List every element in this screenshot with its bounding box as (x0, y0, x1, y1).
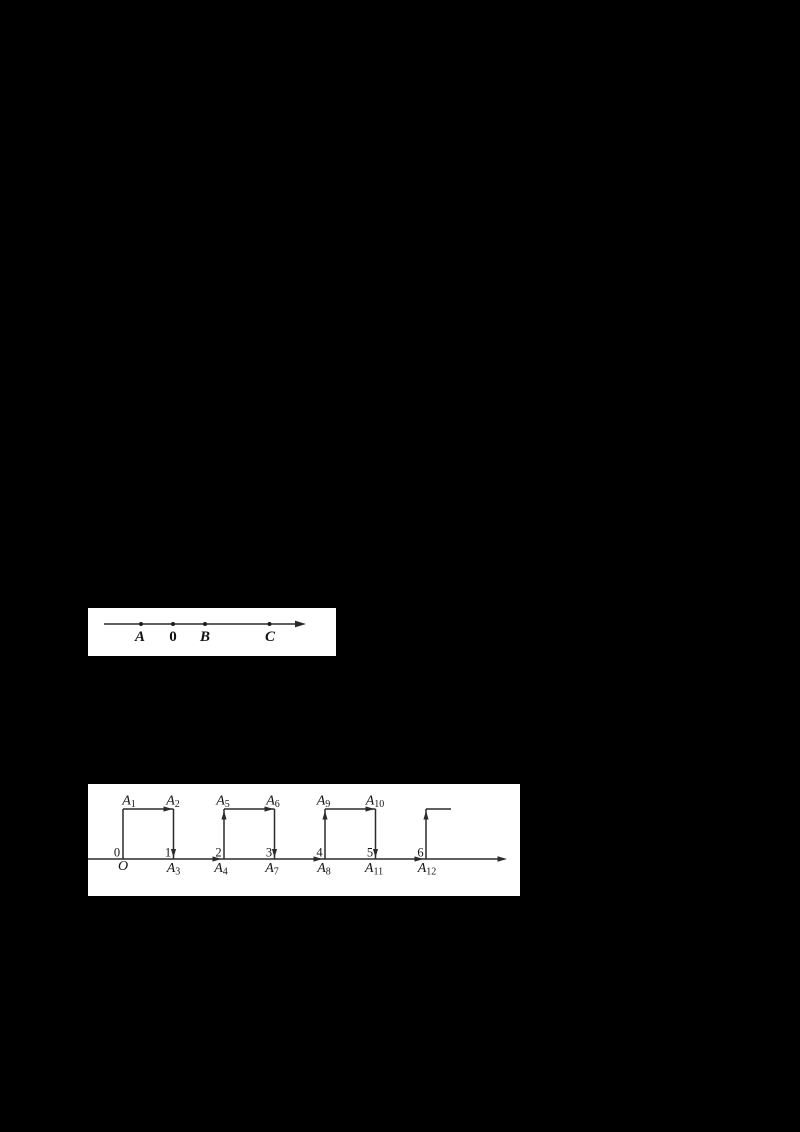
svg-text:B: B (199, 629, 210, 645)
svg-text:A4: A4 (213, 861, 228, 878)
svg-text:C: C (265, 629, 276, 645)
svg-text:4: 4 (316, 846, 323, 860)
svg-text:A9: A9 (316, 793, 331, 810)
svg-text:A10: A10 (365, 793, 385, 810)
svg-text:0: 0 (114, 846, 120, 860)
svg-text:A7: A7 (264, 861, 279, 878)
svg-text:1: 1 (165, 846, 171, 860)
svg-text:A2: A2 (165, 793, 180, 810)
svg-text:2: 2 (215, 846, 221, 860)
svg-text:3: 3 (266, 846, 272, 860)
svg-text:A8: A8 (316, 861, 331, 878)
svg-text:5: 5 (367, 846, 373, 860)
svg-text:O: O (118, 859, 128, 874)
svg-text:A3: A3 (166, 861, 181, 878)
svg-text:A12: A12 (417, 861, 437, 878)
svg-text:A6: A6 (265, 793, 280, 810)
svg-text:A11: A11 (364, 861, 383, 878)
svg-text:A1: A1 (121, 793, 136, 810)
svg-text:A: A (134, 629, 145, 645)
svg-text:0: 0 (169, 629, 177, 645)
svg-text:A5: A5 (215, 793, 230, 810)
svg-text:6: 6 (417, 846, 423, 860)
